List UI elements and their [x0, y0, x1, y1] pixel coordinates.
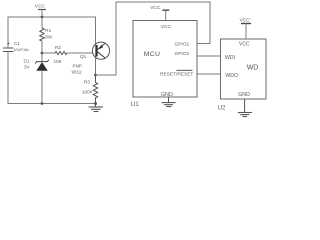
node junction VCC-rail: [41, 16, 44, 19]
wire bottom rail: [8, 103, 97, 105]
ground WD: [238, 99, 252, 117]
svg-text:GPIO1: GPIO1: [175, 41, 190, 47]
node junction D1-bottom-rail: [41, 102, 44, 105]
svg-text:GND: GND: [161, 92, 173, 98]
diode D1 zener: [24, 58, 49, 71]
svg-text:GPIO2: GPIO2: [175, 51, 190, 57]
ground MCU: [162, 97, 176, 107]
wire emitter from rail: [95, 17, 97, 75]
svg-text:C1: C1: [14, 41, 20, 46]
svg-text:VCC: VCC: [150, 5, 161, 11]
svg-text:10K: 10K: [54, 59, 63, 64]
svg-text:VCC': VCC': [240, 17, 251, 23]
ground left circuit: [89, 104, 104, 112]
svg-text:R2: R2: [55, 45, 61, 50]
wire to R2: [42, 52, 55, 54]
transistor Q1: [72, 42, 110, 75]
svg-text:WD: WD: [247, 65, 259, 72]
svg-text:100K: 100K: [82, 89, 94, 94]
resistor R2: [54, 45, 68, 64]
wire left edge upper: [7, 17, 9, 49]
svg-text:20K: 20K: [44, 34, 53, 39]
svg-text:U2: U2: [218, 105, 226, 112]
IC U1 MCU box: [133, 21, 197, 98]
resistor R1: [40, 28, 54, 41]
svg-text:VCC: VCC: [239, 41, 250, 47]
svg-text:U1: U1: [131, 101, 140, 108]
node junction collector: [94, 74, 97, 77]
wire RESET to WDO: [197, 73, 221, 75]
svg-text:10UF/16v: 10UF/16v: [14, 48, 30, 52]
svg-text:D1: D1: [24, 58, 30, 63]
wire left edge lower: [7, 52, 9, 105]
svg-text:WDO: WDO: [225, 73, 238, 79]
power VCC symbol MCU: [150, 5, 169, 21]
svg-text:R1: R1: [45, 28, 51, 33]
svg-text:PNP: PNP: [73, 63, 82, 68]
svg-text:VCC: VCC: [161, 24, 172, 30]
svg-text:+: +: [7, 41, 10, 47]
svg-text:3V: 3V: [24, 64, 31, 69]
pin RESET/RESET: [160, 70, 193, 77]
wire collector to GPIO1 riser: [96, 2, 211, 75]
power VCC symbol: [35, 4, 46, 18]
svg-text:MCU: MCU: [144, 51, 160, 58]
svg-text:R3: R3: [84, 79, 90, 84]
wire top rail left circuit: [8, 16, 96, 18]
resistor R3: [82, 75, 98, 104]
svg-text:WDI: WDI: [225, 55, 235, 61]
wire D1 bottom lead: [41, 71, 43, 104]
wire R2 to base: [67, 52, 93, 54]
svg-text:9012: 9012: [72, 70, 83, 75]
capacitor C1: [3, 41, 29, 52]
wire R1 top lead: [41, 17, 43, 28]
wire R1 bottom lead: [41, 41, 43, 62]
svg-text:VCC: VCC: [35, 4, 46, 10]
IC U2 WD box: [221, 39, 267, 99]
wire GPIO2 to WDI: [197, 55, 221, 57]
svg-text:Q1: Q1: [80, 54, 87, 59]
svg-text:GND: GND: [238, 92, 250, 98]
node junction base-divider: [41, 52, 44, 55]
svg-text:RESET/RESET: RESET/RESET: [160, 71, 193, 77]
node junction R3-bottom-rail: [94, 102, 97, 105]
power VCC' symbol WD: [240, 17, 252, 39]
